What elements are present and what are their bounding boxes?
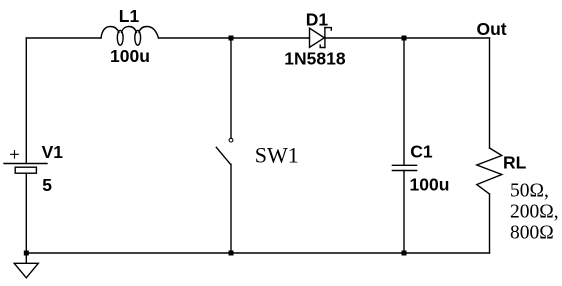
junction bottom capacitor node: [402, 251, 407, 256]
label L1: [119, 6, 140, 26]
svg-text:100u: 100u: [110, 46, 150, 66]
switch SW1: [216, 38, 233, 253]
label 1N5818 (D1 value): [284, 48, 346, 68]
label 100u (L1 value): [110, 46, 150, 66]
junction top capacitor node: [402, 36, 407, 41]
svg-text:200Ω,: 200Ω,: [510, 202, 559, 223]
label 5 (V1 value): [42, 175, 52, 195]
svg-text:1N5818: 1N5818: [284, 48, 346, 68]
label D1: [306, 9, 329, 29]
label 100u (C1 value): [410, 174, 450, 194]
junction bottom battery node: [24, 251, 29, 256]
svg-text:D1: D1: [306, 9, 329, 29]
svg-text:C1: C1: [410, 141, 433, 161]
wire bottom rail: [26, 252, 489, 254]
junction top switch node: [229, 36, 234, 41]
junction bottom switch node: [229, 251, 234, 256]
wire left rail upper: [25, 38, 27, 164]
svg-text:5: 5: [42, 175, 52, 195]
label V1: [42, 142, 64, 162]
node Out: [477, 19, 507, 39]
resistor RL: [477, 148, 502, 194]
wire right rail lower: [489, 194, 491, 253]
label 800 ohm (RL value line 3): [510, 223, 554, 244]
label 50 ohm (RL value line 1): [510, 181, 549, 202]
wire top middle: [159, 37, 310, 39]
ground: [14, 253, 38, 278]
svg-text:RL: RL: [503, 152, 527, 172]
wire top right: [325, 37, 490, 39]
diode D1 (1N5818 schottky): [310, 28, 332, 48]
wire right rail upper: [489, 38, 491, 148]
svg-text:50Ω,: 50Ω,: [510, 181, 549, 202]
wire top-left horizontal: [26, 37, 101, 39]
wire left rail lower: [25, 173, 27, 253]
svg-text:SW1: SW1: [255, 142, 299, 167]
label SW1: [255, 142, 299, 167]
battery V1: [4, 151, 47, 174]
inductor L1: [101, 27, 159, 46]
svg-text:100u: 100u: [410, 174, 450, 194]
label C1: [410, 141, 433, 161]
label RL: [503, 152, 527, 172]
svg-text:L1: L1: [119, 6, 140, 26]
svg-text:Out: Out: [477, 19, 507, 39]
svg-text:V1: V1: [42, 142, 64, 162]
svg-text:800Ω: 800Ω: [510, 223, 554, 244]
label 200 ohm (RL value line 2): [510, 202, 559, 223]
capacitor C1: [392, 38, 416, 253]
